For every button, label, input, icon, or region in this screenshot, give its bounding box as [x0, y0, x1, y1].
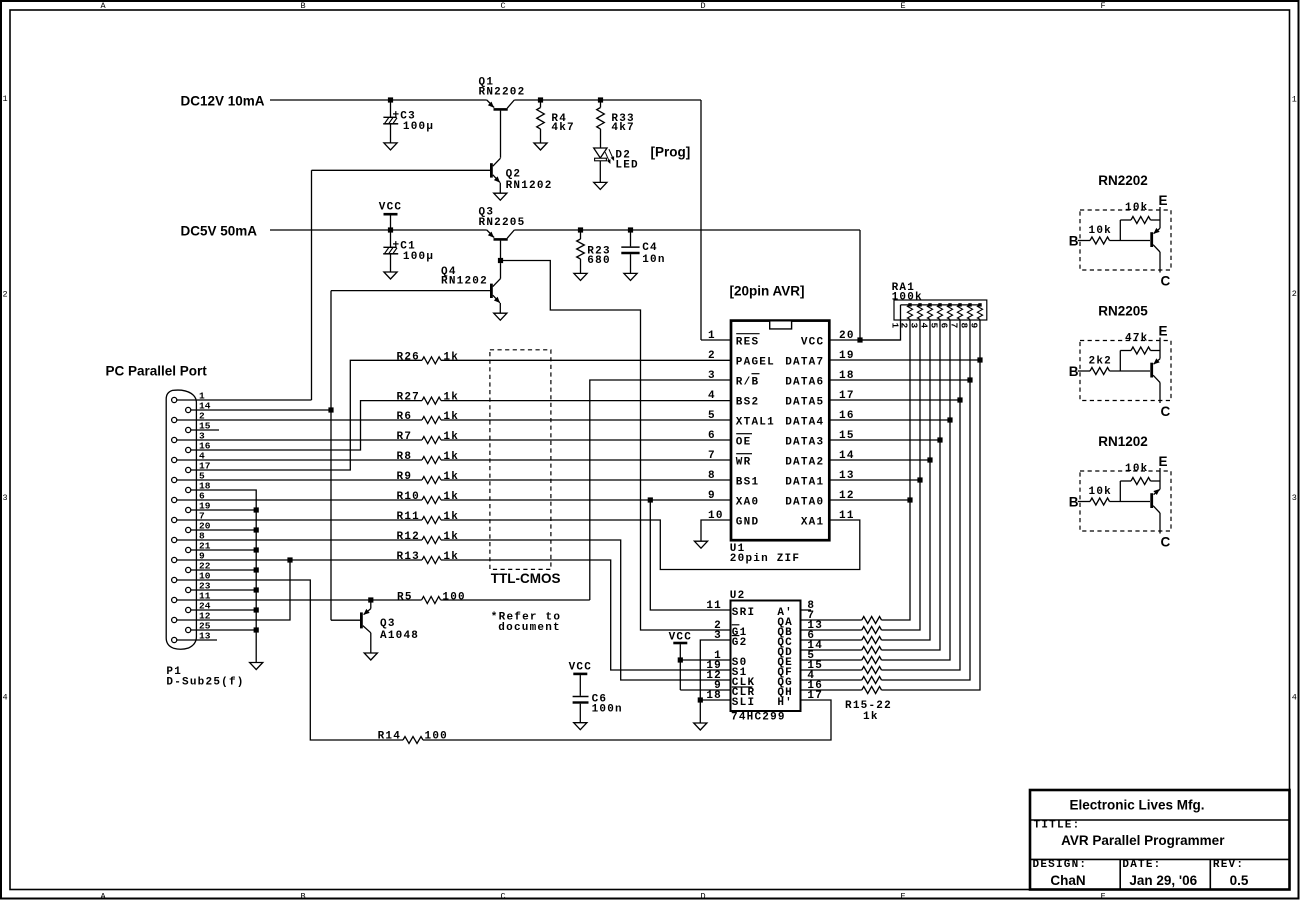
junction DATA6 / RA1 column	[967, 377, 972, 382]
svg-text:DATA1: DATA1	[785, 477, 824, 489]
pin U2-13 QB	[777, 620, 823, 639]
pin P1-7 contact	[172, 511, 205, 523]
svg-text:11: 11	[839, 510, 855, 522]
base resistor 10k of RN2202	[1078, 237, 1150, 244]
pin P1-16 contact	[186, 441, 211, 453]
wire U2 G2 to ground	[700, 640, 730, 723]
wire U1 DATA5 to RA1 column	[830, 399, 961, 401]
pin P1-14 contact	[186, 401, 211, 413]
pin RA1-5 label	[929, 323, 940, 329]
svg-text:C4: C4	[642, 242, 658, 254]
resistor R15 1k on QA	[862, 617, 882, 624]
pin P1-20 contact	[186, 521, 211, 533]
wire U2 QD output	[801, 649, 862, 651]
svg-text:R26: R26	[397, 351, 420, 363]
svg-text:C: C	[1161, 273, 1171, 288]
label R23 value	[587, 246, 610, 268]
label emitter resistor 47k	[1125, 332, 1148, 344]
svg-text:B: B	[300, 892, 305, 900]
pin P1-21 contact	[186, 541, 211, 553]
transistor Q4 RN1202	[491, 263, 500, 313]
equivalent circuit RN2202 dashed box	[1080, 210, 1171, 270]
svg-text:47k: 47k	[1125, 332, 1148, 344]
title block TITLE field	[1034, 820, 1081, 832]
pin P1-23 contact	[186, 581, 211, 593]
pin U2-6 QC	[777, 630, 815, 649]
svg-text:2k2: 2k2	[1089, 355, 1112, 367]
pin U2-18 SLI	[706, 690, 755, 709]
wire P1 pin 5 line	[177, 479, 422, 481]
resistor R8 1k	[422, 457, 441, 464]
svg-text:100µ: 100µ	[403, 251, 434, 263]
svg-text:BS1: BS1	[736, 477, 759, 489]
pin U2-11 SRI	[706, 600, 755, 619]
pin RA1-9 label	[969, 323, 980, 329]
svg-text:SLI: SLI	[732, 697, 755, 709]
label R33 value	[611, 113, 634, 134]
terminal C of RN2205	[1161, 404, 1171, 419]
wire R13 output to U2 S1	[441, 560, 731, 670]
svg-text:R14: R14	[378, 731, 401, 743]
svg-text:A: A	[100, 892, 106, 900]
equivalent circuit RN2205 dashed box	[1080, 341, 1171, 401]
svg-text:[Prog]: [Prog]	[651, 145, 691, 160]
wire Q2 base to port pin 1 column	[312, 169, 491, 171]
wire U1 pin 1 RES stub	[701, 339, 731, 341]
svg-text:R27: R27	[397, 392, 420, 404]
ground under Q2	[494, 193, 507, 200]
power VCC above C6	[569, 662, 592, 696]
resistor R17 1k on QC	[862, 637, 882, 644]
pin P1-22 contact	[186, 561, 211, 573]
wire RA1 common pin 1 to VCC node	[860, 305, 901, 340]
label emitter resistor 10k	[1125, 463, 1148, 475]
pin U1-10 GND	[708, 510, 759, 529]
svg-text:E: E	[900, 1, 905, 11]
svg-text:C: C	[500, 892, 505, 900]
label 20pin AVR heading	[730, 284, 805, 299]
pin P1-1 contact	[172, 391, 205, 403]
resistor R23 680	[577, 230, 585, 273]
terminal C of RN2202	[1161, 273, 1171, 288]
border row labels 1-4 left	[2, 94, 7, 703]
wire DC12V rail drop to U1 pin 1	[700, 100, 702, 340]
svg-text:R5: R5	[397, 591, 413, 603]
wire RA1 column x930 to U2 QC	[882, 319, 931, 640]
label U1 designator	[730, 543, 800, 565]
label R15-22 value	[845, 700, 892, 723]
svg-text:XA0: XA0	[736, 497, 759, 509]
label D2 value	[615, 150, 638, 172]
svg-text:D-Sub25(f): D-Sub25(f)	[166, 677, 244, 689]
wire P1 pin 19 to ground bus	[191, 509, 257, 511]
svg-text:DATA4: DATA4	[785, 417, 824, 429]
svg-text:SRI: SRI	[732, 607, 755, 619]
pin RA1-4 label	[919, 323, 930, 329]
svg-text:Q2: Q2	[506, 169, 522, 181]
wire P1 pin 3 line	[177, 439, 422, 441]
title block DATE field	[1122, 859, 1161, 871]
title block DESIGN field	[1033, 859, 1088, 871]
terminal E of RN1202	[1159, 454, 1168, 469]
equivalent circuit RN2202 title	[1098, 173, 1148, 188]
wire U2 SLI to ground column	[700, 699, 730, 701]
pin P1-12 contact	[172, 611, 211, 623]
label base resistor 2k2	[1089, 355, 1112, 367]
svg-text:3: 3	[1292, 493, 1297, 503]
wire U1 DATA3 to RA1 column	[830, 439, 941, 441]
pin P1-10 contact	[172, 571, 211, 583]
label emitter resistor 10k	[1125, 202, 1148, 214]
pin U1-3 R/B	[708, 370, 760, 389]
pin U2-7 QA	[777, 610, 815, 629]
junction C3 tap on DC12V rail	[388, 97, 393, 102]
wire P1 pin 9 line	[177, 559, 422, 561]
svg-text:DATA5: DATA5	[785, 397, 824, 409]
pin P1-3 contact	[172, 431, 205, 443]
wire DC5V rail drop to U1 pin 20	[859, 230, 861, 340]
terminal E of RN2205	[1159, 324, 1168, 339]
resistor R19 1k on QE	[862, 657, 882, 664]
junction ground bus pin 21	[254, 547, 259, 552]
wire R8 output to U1 WR	[441, 459, 731, 461]
pin U2-15 QF	[777, 660, 823, 679]
label R26 value	[397, 351, 460, 363]
wire P1 pin 6 line	[177, 499, 422, 501]
svg-text:1: 1	[2, 94, 7, 104]
capacitor C6 100n	[573, 697, 589, 723]
wire P1 pin 22 to ground bus	[191, 569, 257, 571]
wire U2 A-prime stub	[801, 609, 812, 611]
wire U1 DATA7 to RA1 column	[830, 359, 981, 361]
svg-text:4: 4	[1292, 693, 1297, 703]
svg-text:document: document	[498, 622, 561, 634]
pin U2-12 CLK	[706, 670, 755, 689]
svg-text:E: E	[900, 892, 905, 900]
svg-text:1k: 1k	[443, 411, 459, 423]
border column labels A-F bottom	[100, 892, 1105, 900]
pin P1-2 contact	[172, 411, 205, 423]
wire P1 pin 21 to ground bus	[191, 549, 257, 551]
pin U1-17 DATA5	[785, 390, 854, 409]
svg-text:7: 7	[708, 450, 716, 462]
resistor R13 1k	[422, 557, 441, 564]
svg-text:4k7: 4k7	[551, 122, 574, 134]
junction ground bus pin 23	[254, 587, 259, 592]
terminal E of RN2202	[1159, 193, 1168, 208]
pin U2-4 QG	[777, 670, 815, 689]
power VCC above C1	[379, 202, 402, 231]
diode D2 LED	[594, 148, 614, 182]
svg-text:B: B	[1069, 364, 1079, 379]
svg-text:3: 3	[2, 493, 7, 503]
junction Q3 A1048 emitter tap	[368, 597, 373, 602]
pin U1-1 RES	[708, 330, 760, 349]
pin U1-11 XA1	[801, 510, 855, 529]
pin U1-9 XA0	[708, 490, 759, 509]
wire U1 DATA1 to RA1 column	[830, 479, 921, 481]
svg-text:DC5V 50mA: DC5V 50mA	[181, 224, 258, 239]
wire P1 pin 15 stub	[191, 429, 219, 431]
svg-text:1k: 1k	[443, 392, 459, 404]
svg-text:4k7: 4k7	[611, 122, 634, 134]
svg-text:R11: R11	[397, 511, 420, 523]
ground under C1	[384, 272, 397, 279]
label base resistor 10k	[1089, 486, 1112, 498]
pin P1-5 contact	[172, 471, 205, 483]
wire P1 pin 11 line	[177, 599, 422, 601]
svg-text:1k: 1k	[443, 431, 459, 443]
terminal B of RN1202	[1069, 494, 1079, 509]
pin U2-2 G1	[714, 620, 747, 639]
junction ground bus pin 22	[254, 567, 259, 572]
svg-text:11: 11	[706, 600, 722, 612]
ground under R4	[534, 143, 547, 150]
junction S0 VCC node	[678, 657, 683, 662]
svg-text:H': H'	[777, 697, 793, 709]
svg-text:PC Parallel Port: PC Parallel Port	[106, 364, 208, 379]
label R5 value	[397, 591, 466, 603]
wire P1 pin 18 ground bus	[191, 490, 257, 663]
wire R9 output to U1 BS1	[441, 479, 731, 481]
junction VCC rail at U1 pin 20	[857, 337, 862, 342]
svg-text:100k: 100k	[892, 292, 923, 304]
title block REV field	[1213, 859, 1244, 871]
wire P1 pin 25 to ground bus	[191, 629, 257, 631]
svg-text:TITLE:: TITLE:	[1034, 820, 1081, 832]
svg-text:R9: R9	[397, 471, 413, 483]
wire U2 QH output	[801, 689, 862, 691]
svg-text:B: B	[300, 1, 305, 11]
ground under U1 pin 10	[694, 541, 707, 548]
wire U2 QF output	[801, 669, 862, 671]
resistor R4 4k7	[537, 100, 545, 143]
pin U1-8 BS1	[708, 470, 759, 489]
note refer to document	[491, 612, 561, 635]
emitter resistor 10k of RN1202	[1120, 478, 1160, 502]
svg-text:F: F	[1100, 1, 1105, 11]
pin P1-15 contact	[186, 421, 211, 433]
pin U1-7 WR	[708, 450, 752, 469]
ground under R23	[574, 273, 587, 280]
wire P1 pin 13 stub	[177, 639, 217, 641]
label U2 part number 74HC299	[731, 712, 786, 724]
transistor inside RN2205	[1152, 338, 1160, 404]
label C6 value	[592, 694, 623, 716]
wire P1 pin 7 line	[177, 519, 422, 521]
wire DC5V rail left segment	[270, 229, 487, 231]
label R12 value	[397, 531, 460, 543]
emitter resistor 10k of RN2202	[1120, 217, 1160, 241]
title block schematic title	[1061, 833, 1225, 848]
wire RA1 column x980 to U2 QH	[882, 319, 981, 690]
label TTL-CMOS	[491, 571, 561, 586]
svg-text:F: F	[1100, 892, 1105, 900]
svg-text:2: 2	[1292, 289, 1297, 299]
junction C1 tap on DC5V rail	[388, 227, 393, 232]
wire RA1 column x940 to U2 QD	[882, 319, 941, 650]
wire P1 pin 20 to ground bus	[191, 529, 257, 531]
border column labels A-F top	[100, 1, 1105, 11]
label base resistor 10k	[1089, 225, 1112, 237]
node DC12V input label	[181, 94, 265, 109]
pin U1-4 BS2	[708, 390, 759, 409]
pin U1-15 DATA3	[785, 430, 854, 449]
label RA1 value	[892, 282, 923, 304]
svg-text:RN2205: RN2205	[479, 217, 526, 229]
wire P1 pin 17 to R26	[191, 360, 422, 470]
svg-text:VCC: VCC	[569, 662, 592, 674]
junction pin 9 / pin 12 node	[287, 557, 292, 562]
equivalent circuit RN2205 title	[1098, 304, 1148, 319]
wire P1 pin 14 to Q4/Q3 base column	[191, 291, 331, 621]
wire R6 output to U1 XTAL1	[441, 419, 731, 421]
label R10 value	[397, 491, 460, 503]
svg-text:Q3: Q3	[380, 618, 396, 630]
svg-text:DC12V 10mA: DC12V 10mA	[181, 94, 265, 109]
svg-text:1k: 1k	[443, 551, 459, 563]
junction ground bus pin 19	[254, 507, 259, 512]
wire RA1 column x960 to U2 QF	[882, 319, 961, 670]
svg-text:10k: 10k	[1125, 202, 1148, 214]
svg-text:XA1: XA1	[801, 517, 824, 529]
svg-text:1k: 1k	[443, 491, 459, 503]
wire U2 QE output	[801, 659, 862, 661]
capacitor C1 100u electrolytic	[383, 230, 398, 272]
pin U1-19 DATA7	[785, 350, 854, 369]
svg-text:10k: 10k	[1089, 225, 1112, 237]
capacitor C3 100u electrolytic	[383, 100, 398, 143]
pin U1-16 DATA4	[785, 410, 854, 429]
title block designer name	[1050, 873, 1085, 888]
equivalent circuit RN1202 title	[1098, 434, 1148, 449]
svg-text:E: E	[1159, 454, 1168, 469]
svg-text:100n: 100n	[592, 704, 623, 716]
svg-text:8: 8	[708, 470, 716, 482]
wire U1 DATA4 to RA1 column	[830, 419, 951, 421]
label R4 value	[551, 113, 574, 134]
svg-text:680: 680	[587, 255, 610, 267]
pin P1-13 contact	[172, 631, 211, 643]
label Q2 designator	[506, 169, 553, 193]
svg-text:1k: 1k	[443, 451, 459, 463]
svg-text:Electronic Lives Mfg.: Electronic Lives Mfg.	[1069, 798, 1204, 813]
resistor R11 1k	[422, 517, 441, 524]
svg-text:OE: OE	[736, 437, 752, 449]
pin RA1-1 label	[889, 323, 900, 329]
resistor R18 1k on QD	[862, 647, 882, 654]
wire R12 output to U2 CLK	[441, 540, 731, 680]
wire R7 output to U1 OE	[441, 439, 731, 441]
resistor R12 1k	[422, 537, 441, 544]
svg-text:BS2: BS2	[736, 397, 759, 409]
transistor Q3 RN2205	[487, 230, 515, 261]
pin P1-25 contact	[186, 621, 211, 633]
ground under C6	[574, 723, 587, 730]
wire RA1 column x920 to U2 QB	[882, 319, 921, 630]
pin U2-8 A'	[777, 600, 815, 619]
svg-text:R10: R10	[397, 491, 420, 503]
svg-text:DATA0: DATA0	[785, 497, 824, 509]
terminal C of RN1202	[1161, 534, 1171, 549]
label Q1 designator	[479, 77, 526, 99]
junction Q3 base / Q4 collector node	[498, 258, 503, 263]
resistor network RA1 100k body	[894, 300, 987, 320]
pin U1-2 PAGEL	[708, 350, 775, 369]
pin U2-16 QH	[777, 680, 823, 699]
svg-text:2: 2	[708, 350, 716, 362]
svg-text:1k: 1k	[443, 511, 459, 523]
svg-text:DATA7: DATA7	[785, 357, 824, 369]
wire U2 QC output	[801, 639, 862, 641]
pin U2-14 QD	[777, 640, 823, 659]
svg-text:10k: 10k	[1089, 486, 1112, 498]
svg-text:100: 100	[442, 591, 465, 603]
svg-text:0.5: 0.5	[1230, 873, 1249, 888]
svg-text:C: C	[1161, 404, 1171, 419]
svg-text:5: 5	[708, 410, 716, 422]
pin U2-1 S0	[714, 650, 747, 669]
wire R10 output to U1 XA0	[441, 499, 731, 501]
svg-text:G2: G2	[732, 637, 748, 649]
label C1 value	[400, 241, 434, 264]
pin U2-9 CLR	[714, 680, 755, 699]
node label Prog	[651, 145, 691, 160]
svg-text:RN2202: RN2202	[1098, 173, 1148, 188]
terminal B of RN2202	[1069, 233, 1079, 248]
svg-text:6: 6	[708, 430, 716, 442]
svg-text:R13: R13	[397, 551, 420, 563]
ground under C4	[624, 273, 637, 280]
svg-text:R6: R6	[397, 411, 413, 423]
transistor Q1 RN2202	[487, 100, 515, 158]
pin U2-5 QE	[777, 650, 815, 669]
wire P1 pin 12 to pin 9 line	[177, 560, 290, 620]
pin P1-19 contact	[186, 501, 211, 513]
capacitor C4 10n	[621, 230, 639, 273]
wire R5 to U1 R/B	[590, 380, 731, 600]
svg-text:XTAL1: XTAL1	[736, 417, 775, 429]
wire VCC to U2 S0 and CLR	[680, 660, 730, 690]
junction DATA5 / RA1 column	[957, 397, 962, 402]
svg-text:A: A	[100, 1, 106, 11]
pin P1-9 contact	[172, 551, 205, 563]
svg-text:DATE:: DATE:	[1122, 859, 1161, 871]
wire Q4 base to port pin 14 column	[331, 290, 490, 292]
svg-text:LED: LED	[615, 160, 638, 172]
node DC5V input label	[181, 224, 258, 239]
transistor inside RN1202	[1152, 468, 1160, 534]
junction R23 tap on DC5V rail	[578, 227, 583, 232]
svg-text:VCC: VCC	[379, 202, 402, 214]
title block frame	[1030, 790, 1290, 890]
junction C4 tap on DC5V rail	[628, 227, 633, 232]
svg-text:RN2202: RN2202	[479, 87, 526, 99]
svg-text:9: 9	[708, 490, 716, 502]
wire U1 DATA6 to RA1 column	[830, 379, 971, 381]
svg-text:4: 4	[2, 693, 7, 703]
svg-text:1: 1	[1292, 95, 1297, 105]
resistor R20 1k on QF	[862, 667, 882, 674]
svg-text:10k: 10k	[1125, 463, 1148, 475]
title block company name	[1069, 798, 1204, 813]
wire P1 pin 1 to Q2 base column	[177, 170, 312, 400]
TTL-CMOS boundary dashed box	[490, 350, 551, 570]
ground under D2	[594, 182, 607, 189]
terminal B of RN2205	[1069, 364, 1079, 379]
svg-text:2: 2	[2, 290, 7, 300]
resistor R14 100	[403, 737, 423, 744]
